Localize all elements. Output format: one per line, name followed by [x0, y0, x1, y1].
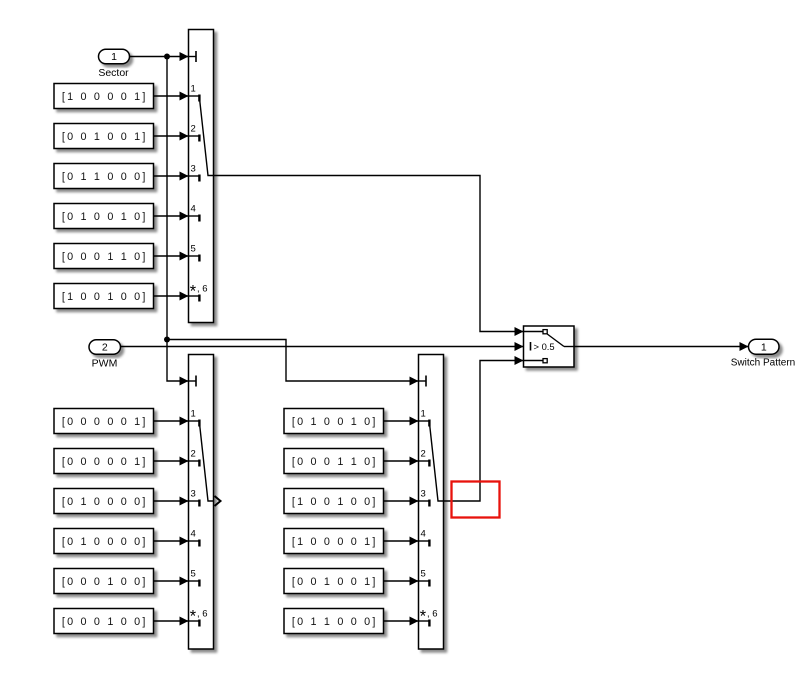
annotation red highlight rectangle — [452, 482, 500, 518]
MPS1 input port 4 — [189, 204, 200, 222]
MPS3 input port 4 — [419, 529, 430, 547]
wire C12 to MPS1 port 2 — [154, 132, 189, 141]
wire C26 to MPS2 port 6 — [154, 617, 189, 626]
svg-text:[0 1 0 0 1 0]: [0 1 0 0 1 0] — [62, 211, 148, 223]
constant C22 [0 0 0 0 0 1] — [54, 449, 154, 474]
MPS3 input port 6 — [419, 608, 438, 627]
svg-text:[1 0 0 1 0 0]: [1 0 0 1 0 0] — [292, 496, 378, 508]
switch block SW greater than 0.5 — [524, 326, 575, 367]
wire MPS1 output to Switch input 1 — [214, 176, 524, 337]
SW pivot arm — [547, 334, 574, 347]
MPS3 input port 5 — [419, 569, 430, 587]
wire C24 to MPS2 port 4 — [154, 537, 189, 546]
multiport switch MPS1 — [189, 30, 214, 323]
svg-text:Switch Pattern: Switch Pattern — [731, 358, 795, 369]
wire C16 to MPS1 port 6 — [154, 292, 189, 301]
svg-text:4: 4 — [421, 529, 426, 540]
svg-text:PWM: PWM — [92, 358, 118, 370]
outport 1 Switch Pattern — [731, 339, 795, 368]
constant C33 [1 0 0 1 0 0] — [284, 489, 384, 514]
MPS2 input port 3 — [189, 489, 200, 507]
svg-text:[0 1 0 0 0 0]: [0 1 0 0 0 0] — [62, 536, 148, 548]
svg-text:[0 0 0 0 0 1]: [0 0 0 0 0 1] — [62, 456, 148, 468]
constant C21 [0 0 0 0 0 1] — [54, 409, 154, 434]
constant C15 [0 0 0 1 1 0] — [54, 244, 154, 269]
svg-text:4: 4 — [191, 204, 196, 215]
wire C11 to MPS1 port 1 — [154, 92, 189, 101]
MPS1 input port 1 — [189, 84, 200, 102]
wire C34 to MPS3 port 4 — [384, 537, 419, 546]
svg-text:[0 0 0 0 0 1]: [0 0 0 0 0 1] — [62, 416, 148, 428]
wire C23 to MPS2 port 3 — [154, 497, 189, 506]
constant C35 [0 0 1 0 0 1] — [284, 569, 384, 594]
constant C23 [0 1 0 0 0 0] — [54, 489, 154, 514]
MPS2 input port 5 — [189, 569, 200, 587]
svg-text:, 6: , 6 — [197, 284, 208, 295]
svg-text:2: 2 — [191, 449, 196, 460]
svg-text:[1 0 0 0 0 1]: [1 0 0 0 0 1] — [292, 536, 378, 548]
constant C24 [0 1 0 0 0 0] — [54, 529, 154, 554]
constant C36 [0 1 1 0 0 0] — [284, 609, 384, 634]
constant C11 [1 0 0 0 0 1] — [54, 84, 154, 109]
svg-text:*: * — [420, 608, 427, 626]
constant C25 [0 0 0 1 0 0] — [54, 569, 154, 594]
inport 1 Sector — [98, 49, 129, 79]
junction node Sector lower branch — [164, 337, 170, 343]
SW input 3 port marker — [524, 359, 548, 363]
svg-text:[0 1 0 0 1 0]: [0 1 0 0 1 0] — [292, 416, 378, 428]
wire C13 to MPS1 port 3 — [154, 172, 189, 181]
svg-text:5: 5 — [191, 244, 196, 255]
constant C34 [1 0 0 0 0 1] — [284, 529, 384, 554]
svg-text:2: 2 — [421, 449, 426, 460]
wire SW output to outport — [574, 342, 749, 351]
MPS1 input port 6 — [189, 283, 208, 302]
MPS2 unconnected output arrow — [215, 496, 221, 506]
MPS3 input port 2 — [419, 449, 430, 467]
svg-text:, 6: , 6 — [197, 609, 208, 620]
svg-text:[0 0 0 1 0 0]: [0 0 0 1 0 0] — [62, 616, 148, 628]
wire C31 to MPS3 port 1 — [384, 417, 419, 426]
svg-text:1: 1 — [191, 409, 196, 420]
wire C22 to MPS2 port 2 — [154, 457, 189, 466]
MPS3 selector path — [429, 423, 443, 502]
junction node Sector branch — [164, 54, 170, 60]
svg-text:[0 0 0 1 0 0]: [0 0 0 1 0 0] — [62, 576, 148, 588]
constant C32 [0 0 0 1 1 0] — [284, 449, 384, 474]
svg-text:5: 5 — [421, 569, 426, 580]
constant C14 [0 1 0 0 1 0] — [54, 204, 154, 229]
constant C16 [1 0 0 1 0 0] — [54, 284, 154, 309]
MPS2 selector path — [199, 423, 213, 502]
svg-text:, 6: , 6 — [427, 609, 438, 620]
svg-text:[0 0 0 1 1 0]: [0 0 0 1 1 0] — [292, 456, 378, 468]
multiport switch MPS2 — [189, 355, 214, 650]
constant C26 [0 0 0 1 0 0] — [54, 609, 154, 634]
wire C35 to MPS3 port 5 — [384, 577, 419, 586]
svg-text:4: 4 — [191, 529, 196, 540]
svg-text:[0 0 1 0 0 1]: [0 0 1 0 0 1] — [292, 576, 378, 588]
constant C31 [0 1 0 0 1 0] — [284, 409, 384, 434]
multiport switch MPS3 — [419, 355, 444, 650]
svg-text:*: * — [190, 283, 197, 301]
svg-text:*: * — [190, 608, 197, 626]
MPS1 input port 3 — [189, 164, 200, 182]
svg-text:[0 1 1 0 0 0]: [0 1 1 0 0 0] — [292, 616, 378, 628]
wire C32 to MPS3 port 2 — [384, 457, 419, 466]
svg-text:3: 3 — [191, 489, 196, 500]
wire Sector vertical bus — [166, 57, 168, 340]
svg-text:1: 1 — [421, 409, 426, 420]
MPS2 input port 2 — [189, 449, 200, 467]
svg-text:Sector: Sector — [98, 67, 129, 79]
MPS1 input port 2 — [189, 124, 200, 142]
wire C14 to MPS1 port 4 — [154, 212, 189, 221]
SW input 1 port marker — [524, 330, 548, 334]
wire Sector to MPS3 control — [167, 340, 419, 386]
MPS2 input port 1 — [189, 409, 200, 427]
wire C36 to MPS3 port 6 — [384, 617, 419, 626]
MPS2 input port 6 — [189, 608, 208, 627]
wire C25 to MPS2 port 5 — [154, 577, 189, 586]
MPS1 input port 5 — [189, 244, 200, 262]
svg-text:1: 1 — [191, 84, 196, 95]
wire MPS3 output to Switch input 3 — [444, 356, 524, 501]
wire C33 to MPS3 port 3 — [384, 497, 419, 506]
constant C12 [0 0 1 0 0 1] — [54, 124, 154, 149]
svg-text:3: 3 — [191, 164, 196, 175]
svg-text:3: 3 — [421, 489, 426, 500]
svg-text:2: 2 — [102, 342, 108, 354]
MPS2 control port marker — [189, 376, 197, 387]
svg-text:5: 5 — [191, 569, 196, 580]
svg-text:[1 0 0 0 0 1]: [1 0 0 0 0 1] — [62, 91, 148, 103]
wire C21 to MPS2 port 1 — [154, 417, 189, 426]
wire Sector to MPS1 control — [130, 52, 189, 61]
constant C13 [0 1 1 0 0 0] — [54, 164, 154, 189]
MPS3 input port 1 — [419, 409, 430, 427]
inport 2 PWM — [89, 340, 121, 370]
SW control port marker and threshold label — [531, 341, 555, 352]
MPS3 control port marker — [419, 376, 427, 387]
svg-text:[0 1 0 0 0 0]: [0 1 0 0 0 0] — [62, 496, 148, 508]
svg-text:[1 0 0 1 0 0]: [1 0 0 1 0 0] — [62, 291, 148, 303]
wire Sector to MPS2 control — [167, 340, 189, 386]
svg-text:> 0.5: > 0.5 — [534, 341, 555, 352]
wire C15 to MPS1 port 5 — [154, 252, 189, 261]
svg-text:[0 1 1 0 0 0]: [0 1 1 0 0 0] — [62, 171, 148, 183]
wire PWM to Switch control — [121, 342, 524, 351]
svg-text:1: 1 — [761, 341, 767, 353]
svg-text:[0 0 1 0 0 1]: [0 0 1 0 0 1] — [62, 131, 148, 143]
MPS2 input port 4 — [189, 529, 200, 547]
svg-text:1: 1 — [111, 51, 117, 63]
MPS3 input port 3 — [419, 489, 430, 507]
MPS1 control port marker — [189, 51, 197, 62]
MPS1 selector path — [199, 98, 213, 176]
svg-text:[0 0 0 1 1 0]: [0 0 0 1 1 0] — [62, 251, 148, 263]
svg-text:2: 2 — [191, 124, 196, 135]
